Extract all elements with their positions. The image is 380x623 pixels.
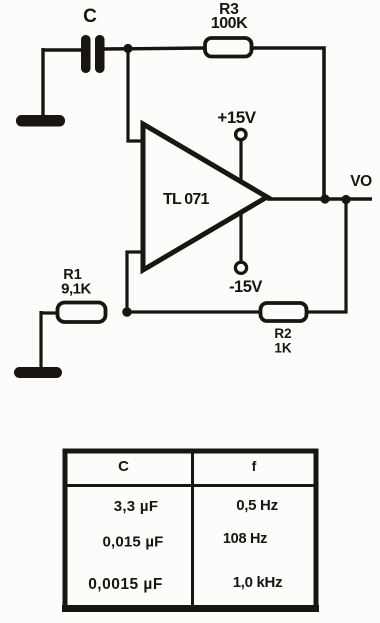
- svg-text:0,015 µF: 0,015 µF: [102, 534, 163, 551]
- svg-text:-15V: -15V: [229, 278, 262, 296]
- svg-text:R2: R2: [274, 326, 291, 341]
- wire -15V up to op-amp: [239, 210, 242, 263]
- svg-text:1,0 kHz: 1,0 kHz: [233, 574, 283, 591]
- resistor R1: [58, 303, 106, 323]
- svg-text:C: C: [118, 458, 129, 475]
- wire down to ground 1: [41, 48, 44, 118]
- table column divider: [191, 449, 194, 610]
- capacitor C: [81, 35, 105, 73]
- node bottom junction: [122, 307, 132, 317]
- wire from cap to left corner: [43, 48, 85, 51]
- svg-text:3,3 µF: 3,3 µF: [114, 498, 159, 515]
- +15V terminal circle: [236, 129, 246, 139]
- svg-text:1K: 1K: [274, 341, 292, 356]
- op-amp U1 TL071 triangle: [143, 124, 267, 270]
- wire R3 to right corner and down to output: [251, 48, 324, 199]
- node junction cap/inverting input: [123, 44, 132, 53]
- svg-text:VO: VO: [350, 173, 372, 190]
- ground: [16, 115, 65, 127]
- svg-text:+15V: +15V: [217, 108, 256, 127]
- wire +15V down to op-amp: [239, 140, 242, 186]
- node output/R3: [320, 194, 329, 203]
- svg-text:100K: 100K: [211, 15, 248, 32]
- wire cap to R3: [104, 48, 204, 49]
- node output/feedback: [341, 195, 350, 204]
- wire R2 to bottom junction: [127, 310, 260, 313]
- svg-text:C: C: [83, 6, 97, 27]
- resistor R3: [205, 38, 252, 57]
- table header divider: [63, 484, 317, 487]
- wire junction down to op-amp input: [128, 48, 143, 141]
- -15V terminal circle: [235, 262, 246, 273]
- svg-text:0,0015 µF: 0,0015 µF: [88, 576, 163, 593]
- svg-text:0,5 Hz: 0,5 Hz: [236, 497, 278, 514]
- output wire to VO: [267, 197, 372, 200]
- wire junction up to non-inverting input: [127, 252, 143, 313]
- ground: [14, 367, 62, 378]
- table frame: [65, 451, 316, 608]
- resistor R2: [261, 303, 307, 321]
- table bottom border thick: [62, 605, 319, 612]
- wire down to ground 2: [39, 311, 42, 372]
- svg-text:f: f: [252, 458, 257, 474]
- wire R1 to left: [41, 311, 58, 314]
- svg-text:9,1K: 9,1K: [61, 281, 91, 298]
- svg-text:108 Hz: 108 Hz: [223, 531, 267, 547]
- svg-text:TL 071: TL 071: [163, 191, 210, 208]
- wire output down to R2: [307, 199, 346, 312]
